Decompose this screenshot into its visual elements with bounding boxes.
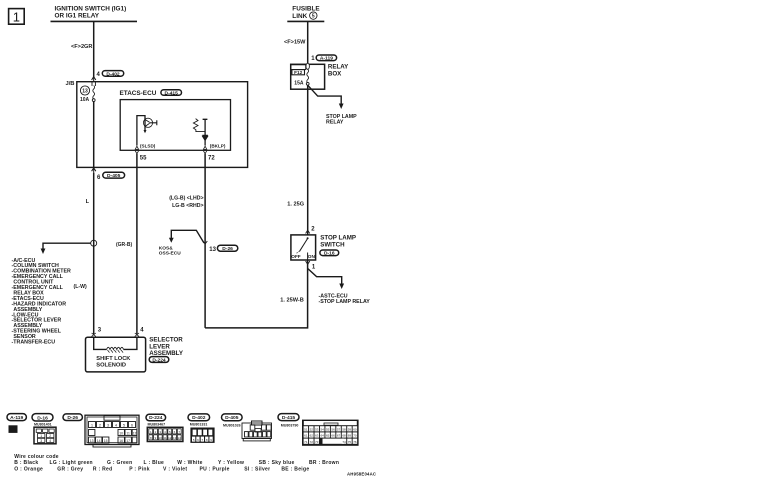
svg-text:59: 59 — [348, 428, 352, 432]
svg-text:D-402: D-402 — [192, 415, 206, 421]
wire GR-B: ETACS pin 55 down to solenoid pin 4 — [136, 154, 138, 335]
svg-text:55: 55 — [140, 155, 147, 161]
connector D-405 pin 6 label — [97, 172, 125, 181]
svg-text:-TRANSFER-ECU: -TRANSFER-ECU — [12, 340, 56, 346]
svg-text:A-119: A-119 — [320, 56, 333, 62]
svg-text:57: 57 — [337, 428, 341, 432]
svg-text:(L-W): (L-W) — [74, 284, 88, 290]
connector D-402 pin 4 label — [97, 71, 124, 78]
svg-text:D-26: D-26 — [222, 246, 233, 252]
svg-text:56: 56 — [331, 428, 335, 432]
wire: fusible link down to relay box — [307, 21, 309, 64]
svg-text:14: 14 — [178, 436, 182, 440]
svg-text:76: 76 — [353, 440, 357, 444]
svg-text:15: 15 — [104, 439, 108, 443]
svg-text:72: 72 — [310, 440, 314, 444]
svg-text:67: 67 — [337, 434, 341, 438]
svg-text:D-16: D-16 — [324, 251, 335, 257]
svg-text:G : Green: G : Green — [107, 460, 132, 466]
svg-text:10: 10 — [119, 431, 123, 435]
svg-text:PU : Purple: PU : Purple — [200, 466, 230, 472]
svg-text:1: 1 — [40, 434, 42, 438]
svg-text:70: 70 — [353, 434, 357, 438]
svg-text:SOLENOID: SOLENOID — [96, 363, 126, 369]
ETACS-ECU inner box — [120, 100, 230, 151]
svg-text:1: 1 — [91, 424, 93, 428]
connector pass-through symbol at J/B top — [92, 77, 96, 86]
svg-text:IGNITION SWITCH (IG1): IGNITION SWITCH (IG1) — [55, 6, 127, 13]
fusible link bus bar — [287, 20, 324, 22]
legend connector D-26 — [63, 414, 139, 447]
connector D-26 pin 13 junction — [203, 241, 238, 253]
pin 55 (SLSD) of ETACS — [135, 144, 156, 162]
page index box 1 — [9, 9, 25, 25]
svg-text:SI : Silver: SI : Silver — [244, 466, 270, 472]
svg-text:J/B: J/B — [65, 81, 74, 87]
svg-text:W : White: W : White — [177, 460, 202, 466]
svg-text:ETACS-ECU: ETACS-ECU — [120, 90, 157, 97]
svg-text:69: 69 — [348, 434, 352, 438]
svg-text:6: 6 — [131, 424, 133, 428]
svg-text:66: 66 — [331, 434, 335, 438]
svg-text:54: 54 — [321, 428, 325, 432]
wire L: D-405 down to junction — [93, 173, 95, 335]
svg-text:12: 12 — [168, 436, 172, 440]
svg-text:V : Violet: V : Violet — [163, 466, 187, 472]
legend connector A-119 — [7, 414, 26, 434]
wire colour code legend text — [14, 454, 339, 473]
selector lever assembly label and connector D-224 — [149, 337, 184, 364]
svg-text:ON: ON — [308, 254, 316, 259]
svg-text:SB : Sky blue: SB : Sky blue — [259, 460, 295, 466]
wire label L — [86, 199, 90, 205]
svg-text:BR : Brown: BR : Brown — [309, 460, 339, 466]
svg-text:71: 71 — [304, 440, 308, 444]
svg-text:52: 52 — [310, 428, 314, 432]
svg-text:D-224: D-224 — [149, 415, 163, 421]
selector lever assembly box — [86, 337, 146, 372]
svg-text:MU801026: MU801026 — [223, 423, 241, 427]
ignition switch (IG1) header label — [55, 6, 127, 20]
svg-text:(GR-B): (GR-B) — [116, 242, 132, 248]
ETACS-ECU label and connector D-415 — [120, 90, 182, 98]
branch arrow to stop lamp relay — [308, 85, 357, 125]
svg-text:10A: 10A — [80, 97, 90, 103]
svg-text:2: 2 — [49, 434, 51, 438]
svg-text:1: 1 — [13, 10, 20, 25]
svg-text:75: 75 — [348, 440, 352, 444]
legend connector D-16 — [32, 414, 56, 444]
svg-text:63: 63 — [315, 434, 319, 438]
svg-text:64: 64 — [321, 434, 325, 438]
svg-text:F12: F12 — [294, 70, 302, 75]
svg-text:13: 13 — [209, 247, 216, 253]
svg-text:17: 17 — [126, 439, 130, 443]
svg-text:16: 16 — [119, 439, 123, 443]
svg-text:60: 60 — [353, 428, 357, 432]
svg-text:MU803467: MU803467 — [148, 423, 166, 427]
fuse F12 15A in relay box — [291, 63, 310, 86]
svg-text:<F>15W: <F>15W — [284, 40, 306, 46]
svg-text:10: 10 — [159, 436, 163, 440]
svg-text:LINK: LINK — [292, 13, 307, 20]
wire: fuse 13 down through J/B to D-405 — [93, 102, 95, 168]
svg-text:5: 5 — [123, 424, 125, 428]
stop lamp switch box — [291, 235, 316, 260]
svg-text:3: 3 — [107, 424, 109, 428]
svg-text:D-415: D-415 — [165, 90, 179, 96]
stop lamp switch pin 2 — [306, 227, 316, 234]
legend connector D-402 — [188, 414, 215, 443]
stop lamp switch label and connector D-16 — [320, 234, 356, 256]
junction node on wire L — [91, 240, 97, 246]
svg-text:(LG-B) <LHD>: (LG-B) <LHD> — [169, 196, 203, 202]
wire label 1.25W-B — [280, 298, 304, 304]
svg-text:LG : Light green: LG : Light green — [50, 460, 93, 466]
svg-text:2: 2 — [99, 424, 101, 428]
svg-text:AH958E04AC: AH958E04AC — [347, 472, 376, 477]
svg-text:GR : Grey: GR : Grey — [57, 466, 83, 472]
svg-text:FUSIBLE: FUSIBLE — [292, 6, 320, 13]
svg-text:13: 13 — [173, 436, 177, 440]
wire label 15W — [284, 40, 306, 46]
document code — [347, 472, 376, 477]
svg-text:51: 51 — [304, 428, 308, 432]
pin 4 of selector lever assembly — [135, 327, 144, 336]
svg-text:<F>2GR: <F>2GR — [71, 44, 92, 50]
svg-text:4: 4 — [115, 424, 117, 428]
svg-text:L: L — [86, 199, 90, 205]
fusible link header label — [292, 6, 320, 20]
svg-text:D-405: D-405 — [225, 415, 239, 421]
svg-text:SWITCH: SWITCH — [320, 242, 345, 249]
pin 3 of selector lever assembly — [92, 327, 102, 336]
ignition switch bus bar — [51, 20, 138, 22]
branch to KOS&OSS-ECU with arrow — [159, 230, 204, 256]
svg-text:55: 55 — [326, 428, 330, 432]
svg-text:74: 74 — [342, 440, 346, 444]
wire label 1.25G — [287, 201, 304, 207]
wire label 2GR — [71, 44, 92, 50]
svg-text:BOX: BOX — [328, 71, 342, 78]
shift lock solenoid coil — [94, 337, 137, 368]
svg-text:STOP LAMP: STOP LAMP — [320, 234, 356, 241]
wire label (L-W) — [74, 284, 88, 290]
wire branch to ECU list arrow — [41, 243, 91, 254]
svg-text:12: 12 — [133, 431, 137, 435]
svg-text:MU803790: MU803790 — [281, 424, 299, 428]
svg-text:D-224: D-224 — [152, 357, 166, 363]
svg-text:OFF: OFF — [291, 254, 301, 259]
svg-text:65: 65 — [326, 434, 330, 438]
wire 1.25G: relay box down to stop lamp switch — [307, 85, 309, 235]
resistor and diode inside ETACS (BKLP output) — [193, 119, 208, 146]
svg-text:13: 13 — [82, 89, 88, 95]
svg-text:RELAY: RELAY — [326, 120, 344, 126]
legend connector D-405 — [222, 414, 272, 441]
svg-text:(SLSD): (SLSD) — [140, 144, 156, 149]
svg-text:BE : Beige: BE : Beige — [281, 466, 309, 472]
stop lamp switch contacts — [291, 237, 315, 260]
junction block J/B box — [77, 82, 248, 168]
svg-text:15A: 15A — [294, 81, 304, 87]
svg-text:B : Black: B : Black — [14, 460, 38, 466]
pin 72 (BKLP) of ETACS — [203, 144, 225, 162]
svg-text:D-26: D-26 — [67, 415, 78, 421]
svg-text:MU801401: MU801401 — [34, 423, 52, 427]
wire LG-B: ETACS pin 72 down to bottom run — [204, 154, 206, 328]
svg-text:D-405: D-405 — [107, 173, 121, 179]
svg-text:53: 53 — [315, 428, 319, 432]
transistor inside ETACS (SLSD output) — [137, 116, 157, 146]
svg-text:L : Blue: L : Blue — [144, 460, 165, 466]
svg-text:D-16: D-16 — [37, 415, 48, 421]
svg-text:P : Pink: P : Pink — [129, 466, 150, 472]
svg-text:OR IG1 RELAY: OR IG1 RELAY — [55, 13, 100, 20]
wire: bottom run joining LG-B to stop lamp switch feed — [205, 261, 308, 328]
svg-text:72: 72 — [208, 155, 215, 161]
svg-text:58: 58 — [342, 428, 346, 432]
svg-text:(BKLP): (BKLP) — [210, 144, 226, 149]
legend connector D-415 — [278, 414, 359, 446]
svg-text:73: 73 — [315, 440, 319, 444]
wire: ignition switch down to J/B connector D-402 — [93, 21, 95, 77]
svg-text:62: 62 — [310, 434, 314, 438]
branch arrow to ASTC-ECU / stop lamp relay — [308, 269, 371, 306]
connector A-119 pin 1 label — [311, 55, 336, 62]
svg-text:61: 61 — [304, 434, 308, 438]
stop lamp switch pin 1 — [306, 261, 316, 271]
svg-text:Y : Yellow: Y : Yellow — [218, 460, 244, 466]
svg-text:LG-B <RHD>: LG-B <RHD> — [172, 203, 203, 209]
svg-text:MU801331: MU801331 — [190, 423, 208, 427]
svg-text:D-415: D-415 — [282, 415, 296, 421]
svg-text:4: 4 — [49, 439, 51, 443]
svg-text:5: 5 — [312, 14, 315, 20]
svg-text:1. 25G: 1. 25G — [287, 201, 304, 207]
connector pass-through at J/B bottom — [92, 167, 96, 172]
svg-text:14: 14 — [97, 439, 101, 443]
svg-text:O : Orange: O : Orange — [14, 466, 43, 472]
svg-text:D-402: D-402 — [106, 71, 120, 77]
svg-text:R : Red: R : Red — [93, 466, 113, 472]
wire label LG-B LHD/RHD — [169, 196, 203, 209]
fuse 13 10A in J/B — [80, 86, 95, 104]
svg-text:A-119: A-119 — [10, 415, 23, 421]
ECU list fed by wire L — [12, 258, 72, 346]
relay box — [291, 64, 325, 89]
svg-text:-STOP LAMP RELAY: -STOP LAMP RELAY — [319, 299, 371, 305]
svg-text:11: 11 — [126, 431, 130, 435]
relay box label — [328, 64, 349, 78]
svg-text:SHIFT LOCK: SHIFT LOCK — [96, 356, 131, 362]
wire label (GR-B) — [116, 242, 132, 248]
svg-text:13: 13 — [90, 439, 94, 443]
svg-text:11: 11 — [163, 436, 166, 440]
svg-text:68: 68 — [342, 434, 346, 438]
svg-text:OSS-ECU: OSS-ECU — [159, 250, 181, 256]
svg-text:3: 3 — [40, 439, 42, 443]
legend connector D-224 — [146, 414, 183, 441]
J/B label — [65, 81, 74, 87]
svg-text:1. 25W-B: 1. 25W-B — [280, 298, 304, 304]
